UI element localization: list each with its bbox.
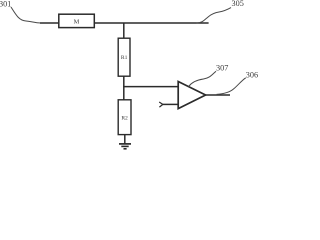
label 301 (0, 0, 11, 9)
svg-text:M: M (74, 19, 80, 26)
leader line to 301 (11, 7, 41, 23)
terminal: open input terminal (fork) on amplifier lower input (159, 102, 163, 107)
label 306 (246, 70, 258, 79)
svg-text:305: 305 (232, 0, 244, 8)
label 307 (216, 64, 228, 73)
ground (119, 144, 131, 149)
svg-text:307: 307 (216, 64, 228, 73)
wire: vertical segment from R1 to R2 through node (123, 76, 125, 100)
svg-text:301: 301 (0, 0, 11, 9)
op-amp U1 (amplifier 307) (178, 82, 205, 109)
component M (box on top wire) (59, 14, 95, 27)
svg-text:306: 306 (246, 70, 258, 79)
wire: amplifier output to 306 (206, 94, 230, 96)
svg-text:R1: R1 (121, 55, 128, 61)
svg-text:R2: R2 (121, 115, 128, 121)
wire: vertical segment from top wire down to R1 (123, 23, 125, 39)
wire: amplifier lower input stub (163, 103, 179, 105)
leader line to 305 (197, 8, 232, 23)
wire: top horizontal net from 301 to 305 (40, 22, 209, 24)
resistor R2 (118, 100, 131, 135)
leader line to 307 (189, 71, 216, 86)
leader line to 306 (217, 78, 246, 95)
node: junction between R1 and R2, wire to amplifier input (123, 86, 178, 88)
wire: vertical segment from R2 to ground (124, 135, 126, 144)
resistor R1 (118, 38, 130, 76)
label 305 (232, 0, 244, 8)
